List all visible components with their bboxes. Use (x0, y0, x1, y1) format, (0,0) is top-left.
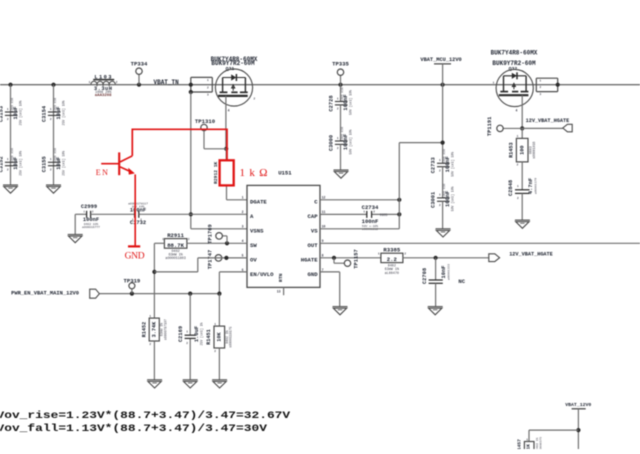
svg-text:TP1191: TP1191 (487, 117, 493, 136)
svg-text:TP1769: TP1769 (208, 224, 214, 243)
svg-text:R1451: R1451 (206, 329, 212, 345)
svg-text:Vov_fall=1.13V*(88.7+3.47)/3.4: Vov_fall=1.13V*(88.7+3.47)/3.47=30V (0, 423, 267, 434)
svg-text:TP335: TP335 (332, 61, 349, 68)
ground (183, 379, 198, 381)
capacitor C2169 (185, 334, 196, 336)
wire A row (141, 213, 247, 215)
ground (74, 214, 76, 234)
svg-text:OV: OV (250, 256, 257, 263)
wire HGATE row pin8 (320, 257, 381, 259)
svg-text:EN: EN (96, 168, 109, 177)
svg-text:R1453: R1453 (509, 142, 515, 158)
resistor R1453 (516, 138, 528, 162)
svg-text:VBAT_TN: VBAT_TN (154, 79, 180, 86)
ground (334, 169, 349, 171)
svg-text:a000051803: a000051803 (165, 257, 185, 261)
ground (428, 306, 443, 308)
wire DGATE link (225, 149, 227, 161)
wire PWR_EN row (99, 293, 219, 295)
svg-text:SW: SW (250, 242, 257, 249)
svg-text:C3155: C3155 (41, 156, 47, 172)
wire C3153 branch (10, 85, 12, 185)
capacitor C2708 (435, 258, 437, 280)
svg-text:a00001016: a00001016 (532, 141, 536, 158)
svg-text:DGATE: DGATE (250, 198, 267, 205)
wire OV row (198, 257, 247, 259)
svg-text:100: 100 (519, 145, 525, 154)
capacitor C3001 (437, 197, 450, 199)
svg-text:12V_VBAT_HGATE: 12V_VBAT_HGATE (509, 251, 553, 257)
wire VBAT_12V0 drop (577, 409, 579, 449)
ground (212, 379, 227, 381)
svg-text:a00001153: a00001153 (448, 264, 451, 280)
svg-text:8: 8 (322, 254, 324, 258)
ground (147, 379, 162, 381)
svg-text:VBAT_12V0: VBAT_12V0 (565, 402, 591, 408)
svg-text:0805: 0805 (380, 213, 388, 217)
svg-text:4.7nF: 4.7nF (528, 178, 534, 194)
svg-text:25V [ce1] 10%: 25V [ce1] 10% (19, 151, 23, 176)
wire R1451 branch (218, 294, 220, 327)
svg-text:2.2: 2.2 (387, 256, 398, 263)
wire divider column (153, 243, 155, 318)
svg-text:C2999: C2999 (81, 204, 97, 210)
svg-text:VBAT_MCU_12V0: VBAT_MCU_12V0 (420, 57, 461, 63)
svg-text:50V [ce1] 10%: 50V [ce1] 10% (349, 90, 353, 115)
capacitor C2733 (437, 162, 450, 164)
svg-text:NC: NC (458, 278, 465, 285)
svg-text:10: 10 (322, 225, 326, 229)
svg-text:C3153: C3153 (0, 106, 4, 122)
wire C row pin12 (320, 199, 399, 201)
svg-text:C1732: C1732 (130, 220, 146, 226)
svg-text:GND: GND (308, 271, 319, 278)
svg-text:C3152: C3152 (0, 156, 4, 172)
svg-text:25V [ce1] 10%: 25V [ce1] 10% (62, 100, 66, 125)
svg-text:R2911: R2911 (167, 232, 184, 239)
wire SW row (187, 242, 247, 244)
ground (3, 184, 18, 186)
svg-text:4: 4 (242, 239, 244, 243)
wire OUT row pin9 (320, 242, 640, 244)
svg-text:a000016777: a000016777 (82, 226, 100, 229)
svg-text:C2848: C2848 (508, 180, 514, 196)
wire C2169 branch (189, 294, 191, 336)
svg-text:3: 3 (242, 225, 244, 229)
svg-text:C2169: C2169 (178, 326, 184, 342)
svg-text:11: 11 (322, 210, 326, 214)
svg-text:1 k Ω: 1 k Ω (240, 167, 269, 179)
svg-text:CAP: CAP (308, 213, 319, 220)
ground (436, 228, 451, 230)
svg-text:3.74K: 3.74K (151, 321, 157, 337)
capacitor C3154 (48, 111, 61, 113)
svg-text:13: 13 (277, 289, 281, 293)
wire R1452 to ground (153, 341, 155, 380)
resistor R1452 (149, 318, 159, 341)
svg-text:4: 4 (228, 109, 230, 113)
wire VS row pin10 (320, 228, 399, 230)
test point TP1157 (333, 258, 335, 263)
wire CAP row pin11 (320, 213, 367, 215)
wire Q32 drain (521, 95, 523, 128)
annotation red wire EN (132, 129, 227, 160)
svg-text:a0000787107: a0000787107 (163, 319, 167, 340)
svg-text:50V [ce1] 10%: 50V [ce1] 10% (451, 186, 455, 211)
op-amp U151 body (247, 185, 320, 287)
svg-text:U151: U151 (278, 170, 292, 177)
connector box Q32 pins 1-3 (535, 78, 537, 91)
wire C3154 branch (53, 85, 55, 185)
svg-text:C3154: C3154 (41, 105, 47, 122)
svg-text:50V [ce1] 10%: 50V [ce1] 10% (349, 129, 353, 154)
svg-text:RTN: RTN (278, 273, 284, 282)
capacitor C3155 (48, 161, 61, 163)
svg-text:12V_VBAT_HGATE: 12V_VBAT_HGATE (526, 118, 570, 124)
svg-text:Vov_rise=1.23V*(88.7+3.47)/3.4: Vov_rise=1.23V*(88.7+3.47)/3.47=32.67V (0, 410, 290, 421)
svg-text:4: 4 (515, 109, 517, 113)
svg-text:9: 9 (322, 239, 324, 243)
svg-text:a0000118175: a0000118175 (229, 326, 233, 347)
wire VSNS row (191, 228, 247, 230)
node 12V_VBAT_HGATE (489, 254, 500, 262)
svg-text:VSNS: VSNS (250, 227, 264, 234)
svg-text:1: 1 (242, 196, 244, 200)
svg-text:a00001179: a00001179 (534, 178, 537, 194)
svg-text:PWR_EN_VBAT_MAIN_12V0: PWR_EN_VBAT_MAIN_12V0 (11, 291, 79, 297)
svg-text:25V [ce1] 10%: 25V [ce1] 10% (62, 151, 66, 176)
svg-text:C2733: C2733 (430, 157, 436, 173)
svg-text:5: 5 (242, 254, 244, 258)
svg-text:R1452: R1452 (141, 322, 147, 338)
svg-text:C2728: C2728 (328, 95, 334, 111)
capacitor C3152 (5, 161, 18, 163)
svg-text:Q32: Q32 (509, 66, 518, 72)
svg-text:2: 2 (242, 210, 244, 214)
svg-text:12: 12 (322, 196, 326, 200)
svg-text:VS: VS (311, 227, 318, 234)
capacitor C2728 (335, 101, 348, 103)
resistor R1451 (214, 326, 225, 348)
svg-text:OUT: OUT (308, 242, 319, 249)
wire VBAT_MCU drop (442, 64, 444, 163)
ground (333, 306, 348, 308)
svg-text:88.7K: 88.7K (167, 242, 184, 249)
svg-text:25V [ce1] 10%: 25V [ce1] 10% (19, 100, 23, 125)
svg-text:TP334: TP334 (131, 61, 148, 68)
svg-text:TP1157: TP1157 (353, 249, 359, 268)
connector box Q31 pins 1-3 (190, 77, 192, 92)
wire Q31 drain (225, 96, 227, 149)
svg-text:25V [ce1] 1%: 25V [ce1] 1% (199, 322, 203, 345)
svg-text:C3001: C3001 (430, 192, 436, 208)
ground (515, 219, 530, 221)
svg-text:BUK7Y4R8-60MX: BUK7Y4R8-60MX (491, 49, 538, 56)
svg-text:R1457: R1457 (516, 439, 522, 449)
wire VBAT bus (0, 84, 640, 86)
svg-text:R2912 1K: R2912 1K (213, 162, 219, 184)
wire 12V hgate top (522, 127, 563, 129)
wire EN/UVLO (219, 271, 247, 273)
wire TP335 branch (340, 85, 342, 102)
svg-text:10nF: 10nF (441, 266, 447, 279)
svg-text:GND: GND (125, 251, 145, 261)
svg-text:aL00470: aL00470 (385, 272, 399, 276)
svg-text:C3000: C3000 (328, 135, 334, 151)
capacitor C3153 (5, 111, 18, 113)
wire HGATE to flag (403, 257, 489, 259)
capacitor C3000 (335, 140, 348, 142)
capacitor C2848 (515, 189, 530, 191)
wire sense line (190, 92, 192, 229)
annotation 1k resistor box (220, 160, 234, 185)
svg-text:10K: 10K (217, 331, 223, 341)
svg-text:0402 1%: 0402 1% (536, 438, 539, 449)
wire R1453 branch (521, 128, 523, 138)
svg-text:50V [ce1] 10%: 50V [ce1] 10% (451, 152, 455, 177)
svg-text:BUK9Y7R2-60M: BUK9Y7R2-60M (492, 60, 536, 67)
svg-text:1K: 1K (525, 444, 531, 449)
svg-text:R3385: R3385 (383, 246, 400, 253)
svg-text:100nF: 100nF (130, 207, 146, 213)
svg-text:aAA3208: aAA3208 (95, 94, 112, 98)
wire GND pin7 (320, 271, 340, 273)
annotation transistor sketch (101, 152, 140, 246)
svg-text:a0000375: a0000375 (539, 437, 542, 449)
ground (46, 184, 61, 186)
svg-text:HGATE: HGATE (301, 256, 318, 263)
svg-text:C2708: C2708 (422, 268, 428, 284)
svg-text:TP1747: TP1747 (208, 250, 214, 269)
svg-text:EN/UVLO: EN/UVLO (250, 271, 274, 278)
